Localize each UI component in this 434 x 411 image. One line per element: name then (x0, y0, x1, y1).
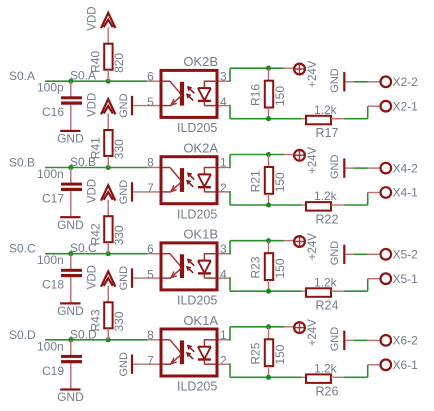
svg-text:GND: GND (57, 304, 84, 318)
svg-text:C16: C16 (42, 105, 64, 119)
junction at resistor R40 (106, 79, 111, 84)
connector pad X5-2 (381, 249, 392, 260)
+24V supply (284, 326, 294, 328)
junction at resistor R41 (106, 165, 111, 170)
svg-text:GND: GND (118, 93, 130, 118)
wire net S0.C horizontal (45, 253, 147, 255)
wire ground to X4-2 (345, 167, 354, 169)
svg-text:R41: R41 (89, 137, 103, 159)
svg-text:7: 7 (147, 181, 154, 195)
svg-text:X6-1: X6-1 (393, 358, 419, 372)
svg-text:R40: R40 (89, 51, 103, 73)
resistor R41 value 330 (104, 130, 112, 156)
svg-text:VDD: VDD (86, 6, 98, 30)
svg-text:5: 5 (147, 95, 154, 109)
svg-text:1.2k: 1.2k (314, 189, 338, 203)
LED inside OK2B (147, 80, 160, 82)
connector pad X4-1 (381, 187, 392, 198)
wire pin 3 to +24V rail (219, 253, 231, 255)
svg-text:+24V: +24V (307, 233, 319, 261)
resistor R17 value 1.2k (301, 118, 306, 120)
svg-text:X2-1: X2-1 (393, 99, 419, 113)
wire ground to X5-2 (345, 253, 354, 255)
wire pin 3 to +24V rail (219, 80, 231, 82)
resistor R43 value 330 (104, 302, 112, 328)
svg-text:4: 4 (220, 267, 227, 281)
svg-text:150: 150 (273, 258, 287, 278)
wire pin 1 to +24V rail (219, 339, 231, 341)
svg-text:OK1B: OK1B (183, 227, 218, 242)
svg-text:ILD205: ILD205 (177, 380, 217, 394)
ground below C16 (60, 130, 80, 132)
wire net S0.D horizontal (45, 339, 147, 341)
connector pad X2-1 (381, 101, 392, 112)
svg-text:2: 2 (220, 181, 227, 195)
photodiode inside OK1B (204, 253, 216, 255)
svg-text:S0.D: S0.D (9, 328, 36, 342)
svg-text:1.2k: 1.2k (314, 275, 338, 289)
photodiode inside OK2B (204, 80, 216, 82)
resistor R40 value 820 (104, 44, 112, 70)
svg-text:R21: R21 (249, 170, 263, 192)
light arrows inside OK1A (188, 346, 194, 352)
wire pin 1 to +24V rail (219, 167, 231, 169)
+24V supply (284, 67, 294, 69)
svg-text:330: 330 (112, 225, 126, 245)
svg-text:R23: R23 (249, 256, 263, 278)
svg-text:R22: R22 (316, 212, 339, 226)
junction at resistor R42 (106, 251, 111, 256)
resistor R24 value 1.2k (301, 290, 306, 292)
junction rail to R21 bottom (266, 202, 271, 207)
junction at capacitor C18 (68, 251, 73, 256)
optocoupler OK2A box (161, 157, 217, 204)
wire pin 4 to bottom rail (219, 105, 231, 107)
svg-text:+24V: +24V (307, 319, 319, 347)
connector pad X6-1 (381, 360, 392, 371)
junction rail to R16 bottom (266, 116, 271, 121)
svg-text:X4-2: X4-2 (393, 161, 419, 175)
resistor R16 value 150 (268, 68, 270, 81)
junction at capacitor C16 (68, 79, 73, 84)
wire ground to X2-2 (345, 81, 354, 83)
photodiode inside OK1A (204, 339, 216, 341)
svg-text:R25: R25 (249, 342, 263, 364)
light arrows inside OK2B (188, 87, 194, 93)
ground below C19 (60, 388, 80, 390)
svg-text:+24V: +24V (307, 60, 319, 88)
svg-text:GND: GND (57, 218, 84, 232)
svg-text:1.2k: 1.2k (314, 361, 338, 375)
svg-text:ILD205: ILD205 (177, 121, 217, 135)
svg-text:GND: GND (118, 180, 130, 205)
svg-text:X2-2: X2-2 (393, 75, 419, 89)
svg-text:VDD: VDD (86, 265, 98, 289)
svg-text:100p: 100p (37, 81, 64, 95)
svg-text:330: 330 (112, 139, 126, 159)
svg-text:820: 820 (112, 53, 126, 73)
junction rail to R23 (266, 238, 271, 243)
svg-text:GND: GND (329, 241, 341, 266)
resistor R25 value 150 (268, 327, 270, 340)
LED inside OK1B (147, 253, 160, 255)
+24V supply (284, 240, 294, 242)
svg-text:GND: GND (329, 327, 341, 352)
svg-text:R26: R26 (316, 385, 339, 399)
wire R24 to X5-1 (344, 290, 368, 292)
connector pad X2-2 (381, 77, 392, 88)
capacitor C19 (70, 340, 72, 356)
svg-text:R17: R17 (316, 126, 339, 140)
svg-text:VDD: VDD (86, 179, 98, 203)
light arrows inside OK2A (188, 173, 194, 179)
junction at resistor R43 (106, 337, 111, 342)
capacitor C17 (70, 168, 72, 184)
wire pin 4 to bottom rail (219, 277, 231, 279)
svg-text:OK2A: OK2A (183, 141, 218, 156)
LED inside OK2A (147, 167, 160, 169)
junction rail to R25 (266, 324, 271, 329)
junction at capacitor C17 (68, 165, 73, 170)
svg-text:R43: R43 (89, 309, 103, 331)
svg-text:R16: R16 (249, 84, 263, 106)
svg-text:R24: R24 (316, 299, 339, 313)
svg-text:X6-2: X6-2 (393, 334, 419, 348)
wire R22 to X4-1 (344, 204, 368, 206)
ground below C18 (60, 302, 80, 304)
wire net S0.B horizontal (45, 167, 147, 169)
svg-text:GND: GND (329, 155, 341, 180)
resistor R22 value 1.2k (301, 204, 306, 206)
svg-text:1.2k: 1.2k (314, 103, 338, 117)
svg-text:C18: C18 (42, 278, 64, 292)
connector pad X6-2 (381, 335, 392, 346)
connector pad X5-1 (381, 273, 392, 284)
+24V supply (284, 154, 294, 156)
wire R17 to X2-1 (344, 118, 368, 120)
svg-text:100n: 100n (37, 253, 64, 267)
resistor R26 value 1.2k (301, 376, 306, 378)
junction rail to R21 (266, 152, 271, 157)
svg-text:150: 150 (273, 172, 287, 192)
capacitor C16 (70, 81, 72, 97)
connector pad X4-2 (381, 163, 392, 174)
svg-text:OK2B: OK2B (183, 54, 218, 69)
svg-text:GND: GND (118, 352, 130, 377)
wire pin 2 to bottom rail (219, 363, 231, 365)
svg-text:5: 5 (147, 267, 154, 281)
svg-text:X4-1: X4-1 (393, 186, 419, 200)
svg-text:100n: 100n (37, 167, 64, 181)
svg-text:100n: 100n (37, 339, 64, 353)
svg-text:GND: GND (329, 68, 341, 93)
svg-text:7: 7 (147, 354, 154, 368)
LED inside OK1A (147, 339, 160, 341)
resistor R23 value 150 (268, 241, 270, 254)
photodiode inside OK2A (204, 167, 216, 169)
svg-text:X5-2: X5-2 (393, 248, 419, 262)
optocoupler OK2B box (161, 70, 217, 117)
svg-text:GND: GND (57, 132, 84, 146)
ground below C17 (60, 216, 80, 218)
junction rail to R25 bottom (266, 375, 271, 380)
svg-text:X5-1: X5-1 (393, 272, 419, 286)
svg-text:S0.A: S0.A (9, 69, 35, 83)
junction rail to R23 bottom (266, 289, 271, 294)
svg-text:ILD205: ILD205 (177, 207, 217, 221)
svg-text:VDD: VDD (86, 93, 98, 117)
svg-text:R42: R42 (89, 223, 103, 245)
optocoupler OK1B box (161, 243, 217, 290)
svg-text:ILD205: ILD205 (177, 294, 217, 308)
svg-text:330: 330 (112, 311, 126, 331)
wire R26 to X6-1 (344, 376, 368, 378)
wire ground to X6-2 (345, 339, 354, 341)
optocoupler OK1A box (161, 329, 217, 376)
light arrows inside OK1B (188, 259, 194, 265)
svg-text:4: 4 (220, 95, 227, 109)
svg-text:C19: C19 (42, 364, 64, 378)
junction at capacitor C19 (68, 337, 73, 342)
svg-text:2: 2 (220, 354, 227, 368)
svg-text:C17: C17 (42, 192, 64, 206)
svg-text:S0.B: S0.B (9, 156, 35, 170)
wire net S0.A horizontal (45, 80, 147, 82)
svg-text:GND: GND (57, 390, 84, 404)
svg-text:+24V: +24V (307, 146, 319, 174)
resistor R42 value 330 (104, 216, 112, 242)
resistor R21 value 150 (268, 155, 270, 168)
svg-text:OK1A: OK1A (183, 313, 218, 328)
svg-text:150: 150 (273, 344, 287, 364)
capacitor C18 (70, 254, 72, 270)
svg-text:GND: GND (118, 266, 130, 291)
svg-text:S0.C: S0.C (9, 242, 36, 256)
svg-text:150: 150 (273, 86, 287, 106)
junction rail to R16 (266, 66, 271, 71)
wire pin 2 to bottom rail (219, 191, 231, 193)
